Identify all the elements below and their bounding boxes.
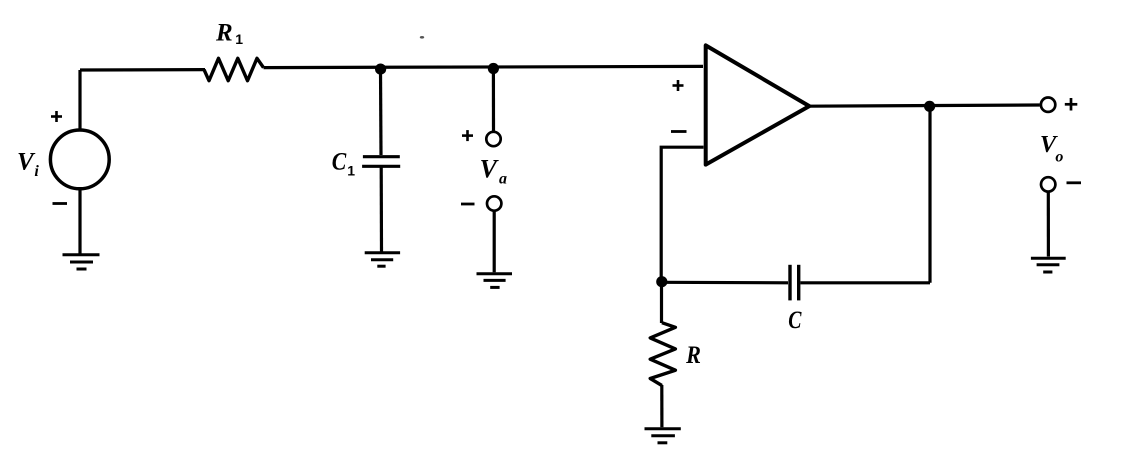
wire Vo minus to ground bbox=[1047, 192, 1050, 257]
svg-text:i: i bbox=[34, 163, 39, 180]
label Vi bbox=[17, 148, 39, 180]
minus sign Vi bbox=[53, 202, 68, 205]
wire R1 to op-amp bbox=[264, 66, 704, 67]
wire capacitor C to feedback bbox=[801, 281, 931, 284]
ground (R) bbox=[645, 429, 681, 443]
wire node B to Va terminal bbox=[492, 69, 495, 132]
resistor R bbox=[650, 323, 675, 386]
svg-text:V: V bbox=[17, 148, 36, 175]
plus sign op-amp input bbox=[673, 80, 684, 91]
wire feedback vertical bbox=[928, 106, 931, 283]
capacitor C1 bbox=[362, 157, 400, 167]
label C1 bbox=[332, 149, 356, 179]
wire R to ground bbox=[660, 385, 663, 427]
capacitor C bbox=[790, 265, 799, 301]
ground (Vi) bbox=[63, 255, 100, 269]
wire op-amp output bbox=[807, 105, 1040, 106]
wire Vi to ground bbox=[78, 189, 81, 254]
wire C1 to ground bbox=[380, 167, 383, 252]
wire Vi top to rail corner bbox=[78, 70, 81, 130]
svg-text:V: V bbox=[480, 154, 500, 183]
svg-text:C: C bbox=[788, 307, 801, 334]
terminal Vo minus bbox=[1041, 177, 1055, 191]
wire node A to C1 bbox=[379, 69, 383, 155]
svg-text:a: a bbox=[499, 170, 507, 187]
svg-text:R: R bbox=[685, 342, 701, 369]
svg-text:o: o bbox=[1055, 148, 1063, 165]
ground (Vo) bbox=[1031, 258, 1066, 272]
ground (Va) bbox=[477, 274, 513, 288]
wire node D to R bbox=[660, 282, 663, 323]
label Va bbox=[480, 154, 507, 187]
node B (rail / Va) bbox=[488, 63, 499, 74]
svg-text:C: C bbox=[332, 149, 347, 176]
wire op-amp inverting input bbox=[661, 147, 703, 281]
wire Va minus to ground bbox=[493, 211, 496, 272]
plus sign Vo bbox=[1065, 98, 1078, 111]
wire rail left of R1 bbox=[80, 68, 205, 72]
svg-text:1: 1 bbox=[347, 163, 355, 179]
node D (feedback / R) bbox=[656, 276, 667, 287]
node C (output / feedback) bbox=[924, 101, 935, 112]
svg-text:1: 1 bbox=[235, 31, 243, 47]
node A (rail / C1) bbox=[375, 64, 386, 75]
minus sign Vo bbox=[1067, 181, 1082, 184]
terminal Va minus bbox=[487, 196, 501, 210]
op-amp U1 bbox=[706, 45, 810, 164]
terminal Vo plus bbox=[1041, 98, 1055, 112]
plus sign Vi bbox=[51, 111, 62, 122]
wire node D to capacitor C bbox=[662, 281, 788, 285]
svg-text:R: R bbox=[215, 19, 233, 46]
ground (C1) bbox=[365, 253, 400, 266]
label Vo bbox=[1040, 131, 1064, 165]
speck artifact bbox=[420, 36, 424, 39]
minus sign op-amp input bbox=[671, 130, 687, 133]
label R1 bbox=[215, 19, 243, 47]
plus sign Va bbox=[462, 130, 473, 141]
resistor R1 bbox=[204, 58, 264, 80]
terminal Va plus bbox=[486, 132, 500, 146]
source Vi bbox=[50, 130, 109, 189]
minus sign Va bbox=[461, 203, 475, 206]
